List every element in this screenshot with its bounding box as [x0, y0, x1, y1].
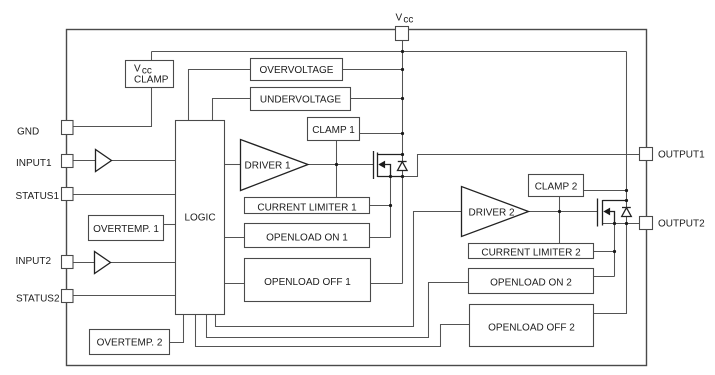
pin STATUS1	[62, 188, 74, 201]
wire status1 to logic	[73, 194, 176, 196]
svg-text:LOGIC: LOGIC	[184, 213, 215, 224]
svg-text:cc: cc	[403, 14, 413, 25]
junction drain1 / rail1	[401, 153, 404, 156]
junction clamp2 / driver2 line	[558, 210, 561, 213]
junction drain2 / rail2	[625, 199, 628, 202]
pin OUTPUT1	[640, 148, 653, 161]
block OVERTEMP. 1	[89, 216, 164, 241]
svg-text:GND: GND	[17, 127, 39, 138]
IC boundary	[67, 30, 647, 366]
svg-text:OVERTEMP. 2: OVERTEMP. 2	[97, 338, 163, 349]
wire clamp2 to driver2 line and current limiter 2	[559, 197, 561, 244]
svg-text:CLAMP: CLAMP	[134, 75, 169, 86]
svg-text:STATUS1: STATUS1	[16, 191, 60, 202]
junction clamp2 / rail2	[625, 189, 628, 192]
wire openload off 1 right to output node	[371, 283, 403, 285]
wire logic to openload on 1	[225, 237, 245, 239]
junction clamp1 / rail1	[401, 132, 404, 135]
wire current limiter 2 right	[594, 251, 615, 253]
wire undervoltage to rail	[351, 98, 403, 100]
block CURRENT LIMITER 1	[245, 198, 370, 214]
svg-text:CURRENT LIMITER 2: CURRENT LIMITER 2	[481, 248, 581, 259]
wire Vcc rail 2 upper	[626, 52, 628, 208]
wire Vcc clamp riser	[151, 52, 153, 61]
junction overvoltage / rail1	[401, 68, 404, 71]
block OPENLOAD ON 2	[469, 269, 594, 294]
wire mosfet2 source to OUTPUT2	[603, 223, 640, 225]
junction current limiter 1 sense	[389, 204, 392, 207]
pin STATUS2	[62, 290, 74, 303]
svg-text:OPENLOAD OFF 1: OPENLOAD OFF 1	[264, 277, 351, 288]
svg-text:OPENLOAD ON 2: OPENLOAD ON 2	[490, 277, 572, 288]
svg-text:DRIVER 2: DRIVER 2	[469, 208, 516, 219]
junction clamp1 / driver1 line	[335, 163, 338, 166]
wire openload on 2 right	[594, 276, 615, 278]
wire logic to driver1	[225, 164, 241, 166]
wire clamp1 to driver line and current limiter 1	[336, 141, 338, 198]
block OVERTEMP. 2	[90, 330, 170, 355]
svg-text:UNDERVOLTAGE: UNDERVOLTAGE	[260, 95, 341, 106]
junction source2 / output2 node	[625, 222, 628, 225]
block UNDERVOLTAGE	[251, 88, 351, 111]
pin label VCC	[396, 13, 414, 26]
block CURRENT LIMITER 2	[469, 244, 594, 259]
pin OUTPUT2	[640, 217, 653, 230]
svg-text:OPENLOAD ON 1: OPENLOAD ON 1	[266, 232, 348, 243]
block OPENLOAD ON 1	[245, 224, 370, 248]
junction source2 / body2	[613, 222, 616, 225]
wire status2 to logic	[73, 295, 176, 297]
wire overtemp1 to logic	[164, 224, 176, 226]
block OPENLOAD OFF 2	[470, 305, 594, 347]
junction undervoltage / rail1	[401, 97, 404, 100]
wire rail 1 lower (output node down to openload off 1)	[402, 171, 404, 284]
wire logic to driver2	[216, 212, 462, 327]
wire current limiter 1 right	[370, 205, 391, 207]
svg-text:V: V	[396, 13, 403, 24]
wire logic to openload off 1	[225, 283, 245, 285]
wire driver2 output to gate2	[529, 211, 598, 213]
block OPENLOAD OFF 1	[245, 259, 371, 302]
pin INPUT2	[62, 256, 74, 269]
block CLAMP 1	[308, 118, 360, 141]
wire buffer1 to logic	[112, 160, 176, 162]
svg-text:CLAMP 2: CLAMP 2	[535, 182, 578, 193]
svg-text:CURRENT LIMITER 1: CURRENT LIMITER 1	[257, 202, 357, 213]
svg-text:OUTPUT2: OUTPUT2	[658, 219, 705, 230]
wire input2 to buffer	[73, 262, 95, 264]
wire clamp1 to rail	[360, 133, 403, 135]
wire undervoltage to logic	[213, 99, 251, 121]
svg-text:OVERTEMP. 1: OVERTEMP. 1	[93, 224, 159, 235]
junction source1 / body1	[389, 175, 392, 178]
wire clamp2 to rail2	[584, 190, 627, 192]
block CLAMP 2	[529, 175, 584, 197]
wire input1 to buffer	[73, 160, 96, 162]
transistor Q2 (power MOSFET 2)	[598, 199, 627, 227]
svg-text:OPENLOAD OFF 2: OPENLOAD OFF 2	[488, 322, 575, 333]
wire GND to Vcc clamp bottom	[73, 88, 152, 127]
svg-text:OUTPUT1: OUTPUT1	[658, 150, 705, 161]
junction source1 / output node	[401, 175, 404, 178]
svg-text:OVERVOLTAGE: OVERVOLTAGE	[260, 65, 334, 76]
pin GND	[62, 121, 74, 135]
body diode D1	[398, 162, 408, 171]
wire Vcc distribution (horizontal feed)	[152, 51, 627, 53]
wire mosfet1 source sense vertical	[390, 177, 392, 238]
wire buffer2 to logic	[111, 262, 176, 264]
op-amp DRIVER 1	[241, 140, 309, 191]
wire logic to overtemp2	[170, 315, 184, 343]
svg-text:DRIVER 1: DRIVER 1	[245, 161, 292, 172]
wire overvoltage to rail	[343, 69, 403, 71]
block LOGIC	[176, 121, 225, 315]
wire logic to openload on 2	[207, 283, 469, 338]
pin INPUT1	[62, 155, 74, 168]
input buffer 2	[95, 252, 111, 274]
wire openload on 1 right	[370, 237, 391, 239]
wire overvoltage to logic	[189, 70, 251, 121]
op-amp DRIVER 2	[462, 187, 529, 237]
junction current limiter 2 sense	[613, 250, 616, 253]
transistor Q1 (power MOSFET 1)	[374, 151, 403, 179]
svg-text:INPUT1: INPUT1	[16, 158, 52, 169]
svg-text:CLAMP 1: CLAMP 1	[312, 125, 355, 136]
wire mosfet2 source sense vertical	[614, 224, 616, 277]
wire Vcc rail 1 upper	[402, 41, 404, 162]
wire mosfet1 source to OUTPUT1	[378, 155, 640, 177]
junction Vcc feed / rail1	[401, 50, 404, 53]
body diode D2	[622, 208, 632, 217]
pin VCC	[396, 27, 409, 41]
block Vcc clamp	[126, 61, 174, 88]
block OVERVOLTAGE	[251, 59, 343, 81]
wire rail 2 lower (output2 node to openload off 2)	[594, 217, 627, 314]
svg-text:STATUS2: STATUS2	[16, 293, 60, 304]
svg-text:V: V	[134, 64, 141, 75]
wire driver1 output to gate1	[308, 164, 374, 166]
wire logic to openload off 2	[196, 315, 470, 347]
input buffer 1	[96, 150, 112, 172]
svg-text:INPUT2: INPUT2	[16, 256, 52, 267]
